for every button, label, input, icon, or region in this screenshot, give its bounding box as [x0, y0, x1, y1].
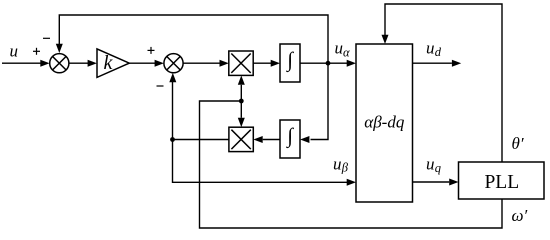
label u_q	[426, 154, 441, 174]
block PLL	[459, 162, 545, 199]
svg-text:ω′: ω′	[512, 206, 528, 225]
wire gain to S2	[129, 60, 164, 67]
label minus sum2	[157, 85, 164, 87]
wire ualpha down to I2	[300, 63, 328, 143]
svg-text:u: u	[426, 38, 435, 57]
svg-text:q: q	[435, 161, 441, 175]
wire omega to M1	[238, 76, 245, 102]
wire S2 to multiplier M1	[183, 60, 229, 67]
svg-text:∫: ∫	[285, 47, 294, 72]
node B	[170, 137, 175, 142]
wire input u	[2, 60, 50, 67]
integrator I1	[280, 44, 300, 82]
svg-text:d: d	[435, 45, 442, 59]
wire theta feedback PLL to abdq	[382, 4, 503, 162]
svg-text:θ′: θ′	[512, 134, 524, 153]
svg-text:u: u	[426, 154, 435, 173]
wire I2 to multiplier M2	[253, 136, 280, 143]
label plus sum1	[33, 48, 40, 55]
summing junction S1	[50, 54, 69, 73]
wire omega feedback PLL to multipliers	[200, 101, 503, 228]
wire node B to u_beta input	[173, 140, 357, 186]
wire M1 to integrator I1	[253, 60, 280, 67]
node u_alpha	[326, 61, 331, 66]
wire S1 to gain	[69, 60, 97, 67]
wire M2 to node B	[173, 139, 229, 141]
summing junction S2	[164, 54, 183, 73]
wire omega to M2	[238, 101, 245, 127]
svg-text:PLL: PLL	[484, 172, 519, 193]
svg-text:u: u	[335, 38, 344, 57]
svg-text:β: β	[341, 160, 349, 174]
svg-text:α: α	[343, 45, 350, 59]
label u_alpha	[335, 38, 351, 59]
svg-text:u: u	[333, 154, 342, 173]
label minus sum1	[43, 37, 50, 39]
node omega	[239, 99, 244, 104]
multiplier M2	[229, 127, 253, 151]
wire u_d output	[413, 60, 462, 67]
integrator I2	[280, 120, 300, 158]
svg-text:∫: ∫	[285, 123, 294, 148]
label u_beta	[333, 154, 349, 174]
svg-text:u: u	[10, 42, 19, 61]
wire I1 to abdq block	[300, 60, 356, 67]
label u_d	[426, 38, 442, 59]
multiplier M1	[229, 51, 253, 75]
wire node B up to S2 minus	[169, 73, 176, 140]
label plus sum2	[148, 47, 155, 54]
wire feedback ualpha to S1	[56, 15, 328, 63]
gain block k	[97, 49, 129, 78]
block abdq transform	[356, 44, 413, 202]
wire u_q to PLL	[413, 179, 459, 186]
svg-text:αβ-dq: αβ-dq	[364, 113, 405, 132]
svg-text:k: k	[104, 52, 114, 74]
